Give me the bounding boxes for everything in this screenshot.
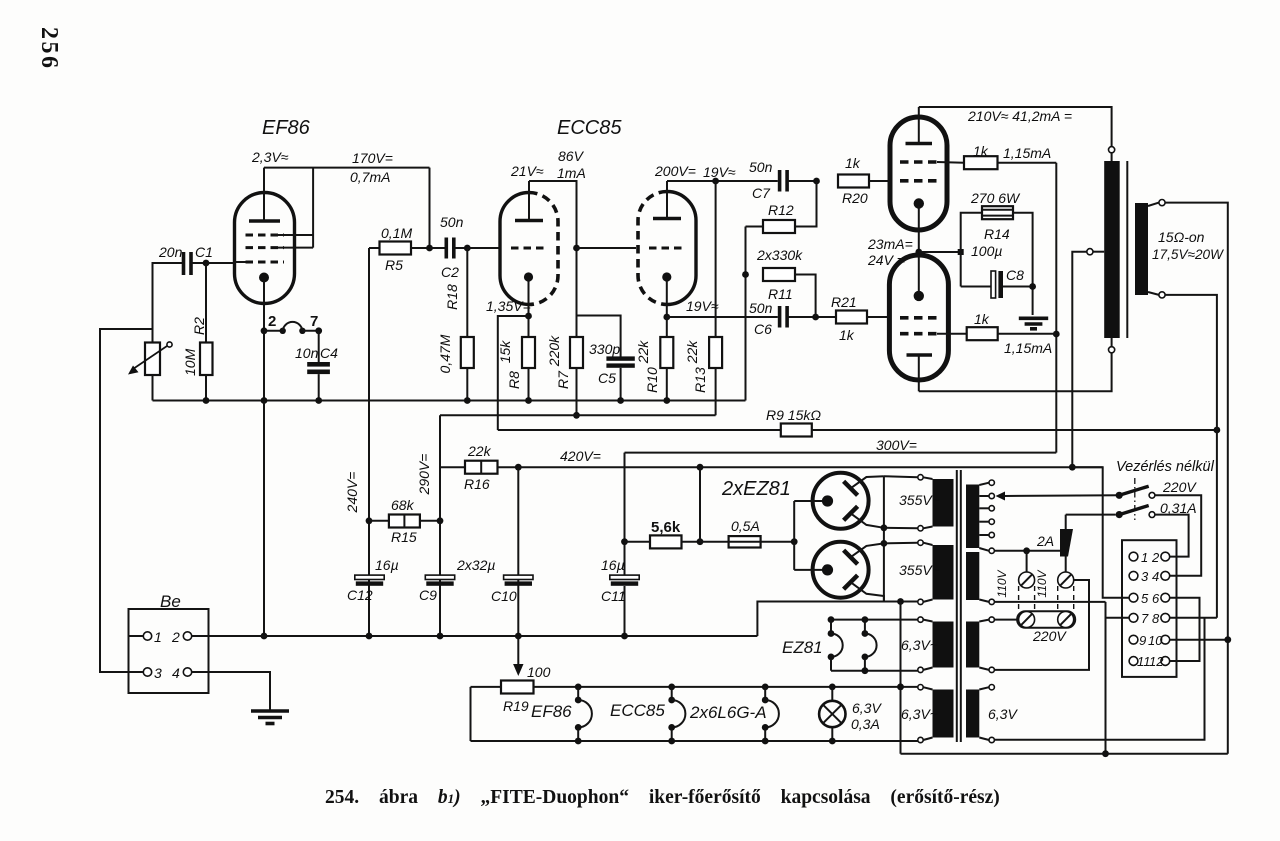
- svg-text:20n: 20n: [158, 244, 183, 260]
- svg-text:C5: C5: [598, 370, 616, 386]
- wires anode rail to transformer taps: [884, 476, 918, 477]
- svg-text:8: 8: [1152, 611, 1160, 626]
- wire strip 8 to heater winding: [1170, 617, 1217, 619]
- screen resistor 1k V3: [937, 161, 964, 164]
- wire strip 10 to speaker rail: [1170, 639, 1228, 641]
- svg-text:330p: 330p: [589, 341, 620, 357]
- fuse 2A: [1060, 529, 1073, 557]
- svg-text:C10: C10: [491, 588, 517, 604]
- capacitor C12 16u: [368, 575, 370, 586]
- power transformer core: [956, 470, 958, 742]
- svg-text:6,3V~: 6,3V~: [901, 706, 938, 722]
- svg-text:1,15mA: 1,15mA: [1003, 145, 1051, 161]
- wire feedback R9 line: [498, 429, 781, 431]
- svg-text:R15: R15: [391, 529, 417, 545]
- svg-text:R16: R16: [464, 476, 490, 492]
- svg-text:86V: 86V: [558, 148, 585, 164]
- svg-text:110V: 110V: [995, 569, 1009, 597]
- svg-text:R14: R14: [984, 226, 1010, 242]
- ground symbol chassis: [251, 709, 289, 713]
- wire strip 7 to ground rail: [1106, 617, 1130, 619]
- svg-text:C12: C12: [347, 587, 373, 603]
- svg-text:0,47M: 0,47M: [437, 334, 453, 373]
- output transformer primary: [1109, 147, 1115, 153]
- wire tap to mains switch: [1005, 494, 1120, 497]
- switch mains 2: [1116, 511, 1123, 518]
- node cathode junction: [915, 249, 922, 256]
- svg-text:1: 1: [154, 629, 162, 645]
- Be input box: [129, 609, 209, 693]
- heater EZ81 line top: [831, 619, 918, 621]
- power transformer left windings: [933, 479, 954, 527]
- resistor R15 68k: [366, 517, 373, 524]
- wire secondary bottom to feedback rail: [1165, 295, 1217, 618]
- svg-text:10: 10: [1148, 633, 1163, 648]
- capacitor C4 10n: [318, 331, 320, 362]
- svg-text:R7: R7: [555, 370, 571, 389]
- svg-text:5: 5: [1141, 591, 1149, 606]
- svg-text:2x330k: 2x330k: [756, 247, 803, 263]
- wire 240V vertical: [368, 248, 370, 575]
- output transformer secondary: [1135, 203, 1148, 295]
- svg-text:270 6W: 270 6W: [970, 190, 1021, 206]
- wire winding6 to selector plug1: [994, 550, 1065, 552]
- svg-text:6,3V~: 6,3V~: [901, 637, 938, 653]
- svg-text:2A: 2A: [1036, 533, 1054, 549]
- power transformer secondary terminals: [918, 475, 923, 743]
- wire switch2 to strip 2: [1155, 515, 1189, 557]
- R19 hum pot arrow: [517, 636, 519, 666]
- svg-text:19V≈: 19V≈: [703, 164, 736, 180]
- wire branch to Be terminal 3: [100, 329, 153, 672]
- svg-text:2x32µ: 2x32µ: [456, 557, 495, 573]
- svg-text:C1: C1: [195, 244, 213, 260]
- tube ECC85 triode 2: [638, 192, 667, 305]
- svg-text:290V=: 290V=: [416, 454, 432, 496]
- wire rectifier anode rail: [883, 476, 885, 602]
- svg-text:6: 6: [1152, 591, 1160, 606]
- svg-text:ECC85: ECC85: [610, 701, 665, 720]
- cathode V4: [914, 291, 924, 301]
- tap arrow 110V selector: [996, 492, 1006, 501]
- svg-text:300V=: 300V=: [876, 437, 917, 453]
- heater EZ81 arc b: [864, 620, 866, 631]
- svg-text:EF86: EF86: [531, 702, 572, 721]
- capacitor C6 50n: [778, 306, 782, 328]
- cathode triode2: [662, 272, 671, 281]
- wire anode V4 to OPT bottom: [919, 353, 1112, 391]
- rectifier EZ81 a: [813, 473, 869, 529]
- wire cathode1 feedback branch: [498, 316, 529, 430]
- resistor R2 10M: [205, 263, 207, 343]
- svg-text:R9 15kΩ: R9 15kΩ: [766, 407, 821, 423]
- svg-text:15k: 15k: [497, 340, 513, 364]
- svg-text:1mA: 1mA: [557, 165, 586, 181]
- svg-text:10M: 10M: [182, 348, 198, 376]
- wire strip 6 to strip 12: [1170, 598, 1200, 661]
- svg-text:1k: 1k: [839, 327, 855, 343]
- svg-text:C11: C11: [601, 588, 626, 604]
- wire screen rail vertical: [1055, 163, 1057, 453]
- svg-text:240V=: 240V=: [344, 472, 360, 514]
- svg-text:254. ábra b1) „FITE-Duophon“ i: 254. ábra b1) „FITE-Duophon“ iker-főerős…: [325, 787, 1000, 808]
- capacitor C5 330p: [606, 356, 634, 360]
- svg-text:68k: 68k: [391, 497, 415, 513]
- svg-text:19V≈: 19V≈: [686, 298, 719, 314]
- svg-text:0,7mA: 0,7mA: [350, 169, 390, 185]
- svg-text:Vezérlés nélkül: Vezérlés nélkül: [1116, 459, 1215, 475]
- dashed selector tracks: [1019, 586, 1074, 613]
- svg-text:EZ81: EZ81: [782, 638, 823, 657]
- wire Be4 to chassis ground: [192, 672, 270, 711]
- svg-text:23mA=: 23mA=: [867, 236, 913, 252]
- svg-text:2: 2: [268, 313, 276, 330]
- grid g1 V3: [900, 179, 937, 183]
- pins 2 7 jumper arc: [280, 328, 286, 334]
- svg-text:R18: R18: [444, 284, 460, 310]
- svg-text:16µ: 16µ: [375, 557, 399, 573]
- svg-text:17,5V≈20W: 17,5V≈20W: [1152, 247, 1224, 262]
- svg-text:EF86: EF86: [262, 117, 311, 139]
- heater loop bottom line: [471, 740, 918, 742]
- grid g1 V4: [900, 316, 937, 320]
- pilot lamp 6,3V 0,3A: [829, 684, 836, 691]
- output tube V4 bottom: [889, 255, 948, 380]
- grid g2 V3: [900, 160, 937, 164]
- svg-text:ECC85: ECC85: [557, 117, 622, 139]
- resistor R14 270 6W: [982, 206, 1013, 219]
- resistor R21 1k: [836, 311, 867, 324]
- svg-text:355V~: 355V~: [899, 562, 940, 578]
- wire 300V line: [625, 452, 1057, 454]
- screen resistor 1k V4: [937, 333, 967, 335]
- svg-text:3: 3: [154, 665, 162, 681]
- svg-text:4: 4: [1152, 569, 1159, 584]
- heater loop top line: [471, 686, 502, 688]
- svg-text:12: 12: [1149, 654, 1164, 669]
- wire rectifier cathode vertical: [624, 453, 626, 575]
- svg-text:1k: 1k: [974, 311, 990, 327]
- resistor R8 15k: [525, 313, 532, 320]
- svg-text:7: 7: [310, 313, 318, 330]
- svg-text:220V: 220V: [1032, 628, 1067, 644]
- switch mains 1: [1116, 492, 1123, 499]
- svg-text:2xEZ81: 2xEZ81: [721, 478, 791, 500]
- svg-text:3: 3: [1141, 569, 1149, 584]
- svg-text:R13: R13: [692, 367, 708, 393]
- wire anode1 to 86V node: [529, 181, 577, 337]
- wire cathode2 to C6: [667, 316, 778, 318]
- selector 220V bar: [1017, 611, 1075, 628]
- grid triode2: [649, 247, 685, 250]
- grid bracket EF86 g2 g3 tie: [272, 234, 313, 236]
- svg-text:100µ: 100µ: [971, 243, 1002, 259]
- svg-text:1,35V=: 1,35V=: [486, 298, 531, 314]
- ground bus riser: [757, 602, 917, 637]
- anode plate V4: [907, 353, 933, 357]
- wire ground rail vertical right: [1105, 602, 1107, 754]
- selector plug top 110V a: [1019, 572, 1035, 588]
- svg-text:22k: 22k: [684, 340, 700, 365]
- svg-text:1k: 1k: [845, 155, 861, 171]
- ground symbol output: [1019, 316, 1048, 320]
- grid triode1: [511, 247, 547, 250]
- svg-text:2: 2: [1151, 550, 1160, 565]
- terminal strip box: [1122, 540, 1177, 677]
- svg-text:C6: C6: [754, 321, 772, 337]
- svg-text:R8: R8: [506, 371, 522, 389]
- wire grid g1 EF86: [235, 261, 246, 263]
- bottom rail: [901, 753, 1228, 755]
- resistor R18 0,47M: [466, 248, 468, 337]
- capacitor C8 100u: [961, 286, 991, 288]
- svg-text:100: 100: [527, 664, 551, 680]
- svg-text:1: 1: [1141, 550, 1148, 565]
- resistor R12: [795, 181, 817, 227]
- svg-text:220V: 220V: [1162, 479, 1197, 495]
- heater top line to transformer: [897, 684, 904, 691]
- grid g2 V4: [900, 332, 937, 336]
- cathode V3: [914, 198, 924, 208]
- wire C5 branch: [577, 316, 621, 359]
- svg-text:420V=: 420V=: [560, 448, 601, 464]
- center tap OPT: [1093, 251, 1104, 253]
- resistor R13 22k: [715, 181, 717, 337]
- svg-text:170V=: 170V=: [352, 150, 393, 166]
- svg-text:1k: 1k: [973, 143, 989, 159]
- switch link dash-dot: [1134, 478, 1136, 520]
- wire switch1 to strip 4: [1155, 495, 1201, 576]
- wire divider chain R12 R11: [745, 227, 747, 401]
- fuse 0,5A: [700, 541, 729, 543]
- svg-text:0,3A: 0,3A: [851, 716, 880, 732]
- svg-text:200V=: 200V=: [654, 163, 696, 179]
- resistor R5 0,1M: [369, 247, 380, 249]
- svg-text:0,1M: 0,1M: [381, 225, 412, 241]
- svg-text:22k: 22k: [467, 443, 492, 459]
- svg-text:256: 256: [36, 27, 62, 71]
- wire anode2 to C7: [667, 180, 778, 182]
- capacitor C9: [439, 575, 441, 586]
- wire winding to 220V bar: [994, 619, 1017, 621]
- wire selector return: [994, 580, 1089, 670]
- svg-text:50n: 50n: [440, 214, 464, 230]
- node grid EF86: [203, 260, 210, 267]
- svg-text:C9: C9: [419, 587, 437, 603]
- capacitor C7 50n: [778, 170, 782, 192]
- svg-text:6,3V: 6,3V: [988, 706, 1018, 722]
- resistor R19: [501, 681, 534, 694]
- svg-text:22k: 22k: [635, 340, 651, 365]
- svg-text:50n: 50n: [749, 159, 773, 175]
- svg-text:R5: R5: [385, 257, 403, 273]
- resistor 5,6k: [621, 538, 628, 545]
- wire C2 to ECC85 grid: [467, 247, 500, 249]
- anode plate triode1: [515, 219, 543, 223]
- heater EZ81 arc a: [830, 620, 832, 631]
- wire transformer right t7 to rail: [994, 601, 1105, 603]
- wire secondary top to right rail: [1165, 203, 1228, 754]
- resistor R10 22k: [666, 317, 668, 337]
- capacitor C2 50n: [430, 247, 447, 249]
- svg-text:7: 7: [1141, 611, 1149, 626]
- cathode triode1: [524, 272, 533, 281]
- svg-text:6,3V: 6,3V: [852, 700, 882, 716]
- bus upper ground: [153, 400, 746, 402]
- anode plate V3: [906, 142, 933, 146]
- output tube V3 top: [890, 117, 947, 230]
- heater loop left edge: [470, 687, 472, 741]
- svg-text:R20: R20: [842, 190, 868, 206]
- svg-text:5,6k: 5,6k: [651, 519, 681, 536]
- svg-text:110V: 110V: [1035, 569, 1049, 597]
- resistor R16 22k: [440, 466, 465, 468]
- wire Be2 to ground bus lower: [192, 635, 758, 637]
- svg-text:R11: R11: [768, 286, 793, 302]
- svg-text:C8: C8: [1006, 267, 1024, 283]
- wire 210V anode to OPT: [919, 107, 1112, 147]
- resistor R9 15k: [781, 424, 812, 437]
- svg-text:4: 4: [172, 665, 180, 681]
- cathode EF86: [259, 273, 269, 283]
- wire EF86 cathode bus to lower bus: [263, 401, 265, 637]
- capacitor C11 16u: [610, 575, 639, 579]
- svg-text:0,5A: 0,5A: [731, 518, 760, 534]
- svg-text:2,3V≈: 2,3V≈: [251, 149, 289, 165]
- anode plate EF86: [249, 219, 280, 223]
- svg-text:16µ: 16µ: [601, 557, 625, 573]
- svg-text:220k: 220k: [546, 335, 562, 367]
- svg-text:210V≈ 41,2mA =: 210V≈ 41,2mA =: [967, 108, 1072, 124]
- power transformer primary terminals: [989, 480, 994, 743]
- svg-text:50n: 50n: [749, 300, 773, 316]
- resistor R20 1k: [838, 175, 869, 188]
- wire 415 rail R7 R13 to R16: [440, 414, 716, 416]
- svg-text:2x6L6G-A: 2x6L6G-A: [689, 703, 767, 722]
- svg-text:1,15mA: 1,15mA: [1004, 340, 1052, 356]
- svg-text:15Ω-on: 15Ω-on: [1158, 229, 1205, 245]
- wire cathode to R14 network: [919, 251, 961, 253]
- resistor R11: [763, 268, 795, 281]
- capacitor C1 20n: [182, 252, 186, 275]
- svg-text:R19: R19: [503, 698, 529, 714]
- svg-text:C4: C4: [320, 345, 338, 361]
- wire 420V branch to strip 5: [1072, 467, 1129, 598]
- svg-text:21V≈: 21V≈: [510, 163, 544, 179]
- svg-text:Be: Be: [160, 592, 181, 611]
- wire input from C1 left down to pot: [153, 263, 184, 343]
- capacitor C10 2x32u: [517, 467, 519, 586]
- grid rows EF86: [246, 234, 285, 237]
- heater EZ81 line bottom: [831, 670, 918, 672]
- svg-text:355V~: 355V~: [899, 492, 940, 508]
- svg-text:C7: C7: [752, 185, 771, 201]
- selector plug top 110V b: [1058, 572, 1074, 588]
- anode plate triode2: [653, 217, 681, 221]
- power transformer right winding stubs: [979, 483, 989, 740]
- node cathode pin2: [261, 327, 268, 334]
- power transformer left winding stubs: [923, 477, 932, 740]
- wire 420V line: [518, 466, 1102, 468]
- svg-text:10n: 10n: [295, 345, 319, 361]
- svg-text:R12: R12: [768, 202, 794, 218]
- svg-text:2: 2: [171, 629, 180, 645]
- svg-text:R21: R21: [831, 294, 857, 310]
- svg-text:R2: R2: [191, 317, 207, 335]
- rectifier EZ81 b: [813, 542, 869, 598]
- power transformer right windings: [966, 485, 979, 549]
- tube EF86: [235, 193, 295, 304]
- potentiometer P volume: [145, 343, 160, 376]
- wire 86V to triode2 grid: [577, 247, 637, 249]
- wire bus tail to cathode line: [745, 317, 747, 401]
- svg-text:9: 9: [1139, 633, 1146, 648]
- svg-text:C2: C2: [441, 264, 459, 280]
- resistor R7 220k: [570, 337, 583, 368]
- wire 170V anode rail: [264, 167, 430, 169]
- svg-text:R10: R10: [644, 367, 660, 393]
